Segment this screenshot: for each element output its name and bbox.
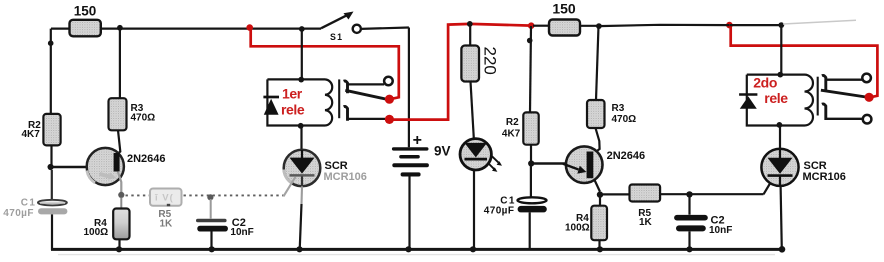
- svg-text:150: 150: [74, 3, 97, 18]
- svg-text:470Ω: 470Ω: [612, 114, 637, 125]
- svg-text:R3: R3: [612, 103, 625, 114]
- svg-text:1K: 1K: [160, 219, 174, 230]
- svg-text:470Ω: 470Ω: [131, 113, 156, 124]
- svg-text:150: 150: [552, 0, 576, 16]
- svg-text:10nF: 10nF: [230, 227, 253, 238]
- svg-text:1er: 1er: [282, 86, 303, 102]
- svg-text:rele: rele: [281, 101, 305, 117]
- svg-text:MCR106: MCR106: [324, 171, 367, 183]
- svg-text:2N2646: 2N2646: [607, 150, 646, 162]
- svg-text:9V: 9V: [434, 143, 451, 158]
- svg-text:100Ω: 100Ω: [84, 227, 109, 238]
- svg-text:220: 220: [481, 47, 500, 75]
- svg-text:470µF: 470µF: [484, 206, 515, 217]
- svg-text:rele: rele: [764, 90, 788, 106]
- svg-text:100Ω: 100Ω: [565, 223, 590, 234]
- svg-text:MCR106: MCR106: [803, 171, 846, 183]
- svg-text:2do: 2do: [753, 75, 777, 91]
- svg-text:C1: C1: [21, 198, 37, 209]
- svg-text:1K: 1K: [639, 217, 653, 228]
- svg-text:+: +: [413, 132, 422, 149]
- svg-text:4K7: 4K7: [22, 129, 41, 140]
- svg-text:R2: R2: [506, 117, 519, 128]
- svg-text:10nF: 10nF: [709, 225, 732, 236]
- svg-text:S1: S1: [330, 32, 343, 42]
- svg-text:470µF: 470µF: [3, 208, 34, 219]
- svg-text:2N2646: 2N2646: [127, 153, 166, 165]
- svg-text:4K7: 4K7: [502, 129, 521, 140]
- svg-text:ī V(: ī V(: [154, 193, 174, 204]
